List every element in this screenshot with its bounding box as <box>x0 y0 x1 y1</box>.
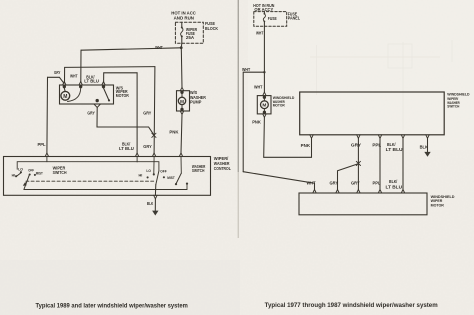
svg-text:MOTOR: MOTOR <box>116 93 130 98</box>
wiper/washer control box <box>4 157 211 196</box>
svg-text:LT BLU: LT BLU <box>386 184 403 189</box>
terminal: wiper motor bottom GRY <box>94 99 101 107</box>
svg-text:GRY: GRY <box>143 110 151 115</box>
wire WHT: diagonal to wiper motor <box>243 172 314 190</box>
svg-text:AND RUN: AND RUN <box>174 16 194 21</box>
windshield wiper/washer switch box <box>300 92 445 135</box>
label: WIPER/WASHER CONTROL <box>214 156 231 171</box>
wiper switch blade short (LO-HI) <box>16 173 21 177</box>
svg-text:WHT: WHT <box>70 74 78 79</box>
wire BLK/LT BLU: terminal3 riser <box>104 73 138 83</box>
terminal arrow: GRY out of switch <box>357 135 360 139</box>
svg-text:FUSE: FUSE <box>268 16 277 21</box>
terminal arrow: GRY into control <box>152 153 155 157</box>
svg-text:LO: LO <box>18 168 23 172</box>
page divider line <box>237 0 239 172</box>
terminal arrow: GRY 2 into wiper motor <box>357 190 360 194</box>
wire PNK: pump to control box <box>181 114 182 153</box>
motor symbol M (washer pump) <box>178 97 185 104</box>
svg-text:GRY: GRY <box>351 181 360 186</box>
svg-text:PPL: PPL <box>38 142 46 147</box>
wiper switch blade long with arrow <box>24 175 30 190</box>
fuse panel (dashed box, right diagram) <box>254 12 287 27</box>
W/S wiper motor box <box>60 85 114 104</box>
wire PPL: switch to motor <box>379 138 381 189</box>
svg-text:LT BLU: LT BLU <box>386 147 403 152</box>
svg-text:M: M <box>63 94 67 100</box>
ground symbol (left) <box>152 211 158 216</box>
svg-text:BLK: BLK <box>147 201 154 206</box>
svg-text:SWITCH: SWITCH <box>53 170 67 175</box>
terminal: wiper motor WHT (2) <box>79 82 82 88</box>
wire: washer pump feed from junction <box>180 48 183 88</box>
svg-text:SWITCH: SWITCH <box>192 168 205 173</box>
svg-text:GRY: GRY <box>351 143 361 148</box>
svg-text:M: M <box>262 103 266 109</box>
ghost bleed-through lines (scan artifact) <box>310 40 452 130</box>
wire WHT: drop to wiper motor terminal B <box>80 50 82 82</box>
svg-text:WHT: WHT <box>254 85 263 90</box>
wire: fuse output down to WHT junction <box>180 43 183 47</box>
svg-text:MIST: MIST <box>167 176 175 180</box>
svg-text:MIST: MIST <box>36 172 44 176</box>
svg-text:LO: LO <box>146 169 151 173</box>
svg-text:MOTOR: MOTOR <box>273 103 285 108</box>
stub: BLK/LT BLU terminal to rail <box>136 157 138 162</box>
park contact arc inside motor <box>68 88 81 102</box>
washer section blade (BLK side) <box>156 171 159 185</box>
label: WINDSHIELD WIPER/WASHER SWITCH <box>447 92 469 109</box>
svg-text:PANEL: PANEL <box>288 16 301 21</box>
wire PPL: down to wiper switch <box>46 77 49 153</box>
wire: terminal1 to motor <box>63 88 66 91</box>
wire WHT: horizontal feed to wiper motor <box>81 48 181 50</box>
svg-text:OFF: OFF <box>160 170 167 174</box>
wire PNK: washer motor to switch <box>264 117 312 157</box>
fuse (right) <box>263 12 265 27</box>
terminal arrow: PPL into control <box>45 153 48 157</box>
terminal arrow: PPL out of switch <box>378 135 381 139</box>
W/S washer pump box <box>177 91 190 111</box>
svg-text:HI: HI <box>139 173 143 177</box>
svg-text:25A: 25A <box>186 35 194 40</box>
wire WHT: down to washer motor <box>263 72 265 92</box>
svg-text:PNK: PNK <box>169 130 179 135</box>
svg-text:GRY: GRY <box>330 181 339 186</box>
svg-text:LT BLU: LT BLU <box>84 79 99 84</box>
svg-text:BLK/: BLK/ <box>389 179 398 184</box>
node: WHT junction at fuse output <box>180 46 183 49</box>
wire WHT: branch to far left drop <box>243 72 264 172</box>
svg-text:PPL: PPL <box>372 143 381 148</box>
terminal arrow: GRY into wiper motor <box>336 190 339 194</box>
wire BLK: to ground <box>154 185 156 196</box>
windshield washer motor box <box>257 96 271 114</box>
svg-text:OR ACCY: OR ACCY <box>254 7 273 12</box>
ground symbol (right) <box>424 152 430 157</box>
terminal arrow: PPL into wiper motor <box>378 190 381 194</box>
terminal: washer motor top <box>263 92 266 98</box>
label: WINDSHIELD WIPER MOTOR (right) <box>431 194 455 207</box>
terminal arrow: BLK out of control <box>154 195 157 199</box>
svg-text:SWITCH: SWITCH <box>447 104 459 109</box>
wire GRY inside control to LO contact <box>153 157 155 174</box>
svg-text:WHT: WHT <box>256 31 264 36</box>
svg-text:PNK: PNK <box>252 120 262 125</box>
terminal: pump top <box>180 87 183 93</box>
svg-text:Typical 1977 through 1987 wind: Typical 1977 through 1987 windshield wip… <box>265 303 438 309</box>
terminal arrow: BLK out of switch <box>426 135 429 139</box>
svg-text:LT BLU: LT BLU <box>119 146 134 151</box>
wiper switch contacts (dots) <box>20 171 22 173</box>
wire GRY: terminal1 up-left <box>48 77 64 83</box>
fuse block (dashed box, left diagram) <box>175 22 203 43</box>
wire GRY: down to control box GRY terminal <box>153 67 156 153</box>
terminal: wiper motor BLK/LT BLU (3) <box>102 82 105 88</box>
svg-text:OFF: OFF <box>28 169 34 173</box>
junction connector X on GRY (right) <box>356 161 360 165</box>
terminal arrow: PNK out of switch <box>310 135 313 139</box>
terminal: pump bottom <box>180 108 183 114</box>
svg-text:GRY: GRY <box>54 70 60 75</box>
svg-text:CONTROL: CONTROL <box>214 166 231 171</box>
svg-text:PUMP: PUMP <box>190 99 202 104</box>
windshield wiper motor box (right) <box>299 193 427 215</box>
wire PNK inside control <box>180 157 182 174</box>
terminal arrow: WHT into wiper motor <box>313 190 316 194</box>
washer switch contacts (dots) <box>147 176 149 178</box>
svg-text:WHT: WHT <box>242 67 251 72</box>
label: WINDSHIELD WASHER MOTOR <box>273 95 295 107</box>
dashed link between switch blades <box>26 180 156 182</box>
svg-text:GRY: GRY <box>143 144 152 149</box>
wire WHT: fuse down to branch node <box>263 26 265 72</box>
svg-text:MOTOR: MOTOR <box>431 202 444 207</box>
wiper fuse 25A <box>181 22 183 43</box>
wire BLK/LT BLU: down to control box <box>136 73 138 153</box>
washer switch blade PNK <box>176 173 181 184</box>
motor symbol M (washer motor) <box>261 101 269 109</box>
wire BLK/LT BLU: switch to motor <box>402 138 404 189</box>
terminal arrow: BLK/LT BLU into wiper motor <box>401 190 404 194</box>
motor symbol M (wiper motor) <box>61 91 70 100</box>
wire GRY: terminal1 up to washer feed rail <box>65 67 155 83</box>
terminal: washer motor bottom <box>263 111 266 117</box>
svg-text:M: M <box>180 99 184 104</box>
svg-text:BLK: BLK <box>420 144 429 149</box>
park switch blade inside motor <box>104 88 109 100</box>
wire GRY: motor bottom to junction <box>97 107 154 134</box>
stub: PPL terminal to rail <box>46 157 48 162</box>
bottom common wire in control box <box>24 184 187 189</box>
wiper switch rail (PPL/BLK-LTBLU common) <box>17 162 159 171</box>
terminal arrow: BLK/LT BLU into control <box>135 153 138 157</box>
svg-text:HI: HI <box>12 173 15 177</box>
svg-text:PNK: PNK <box>301 143 311 148</box>
terminal: wiper motor GRY (1) <box>63 82 66 88</box>
svg-text:BLOCK: BLOCK <box>205 26 219 31</box>
svg-text:GRY: GRY <box>87 111 95 116</box>
wire GRY: branch to second motor terminal <box>338 164 359 190</box>
junction connector X on GRY <box>152 133 156 137</box>
terminal arrow: PNK into control <box>179 153 182 157</box>
svg-text:WHT: WHT <box>307 181 316 186</box>
wire GRY: switch to motor <box>357 138 359 189</box>
terminal arrow: BLK/LT BLU out of switch <box>401 135 404 139</box>
svg-text:WHT: WHT <box>155 45 163 50</box>
svg-text:Typical 1989 and later windshi: Typical 1989 and later windshield wiper/… <box>36 303 188 309</box>
labels: wiper switch positions <box>12 168 176 181</box>
svg-text:PPL: PPL <box>373 181 381 186</box>
node: WHT branch <box>263 71 265 73</box>
wire BLK: to ground <box>427 138 429 152</box>
